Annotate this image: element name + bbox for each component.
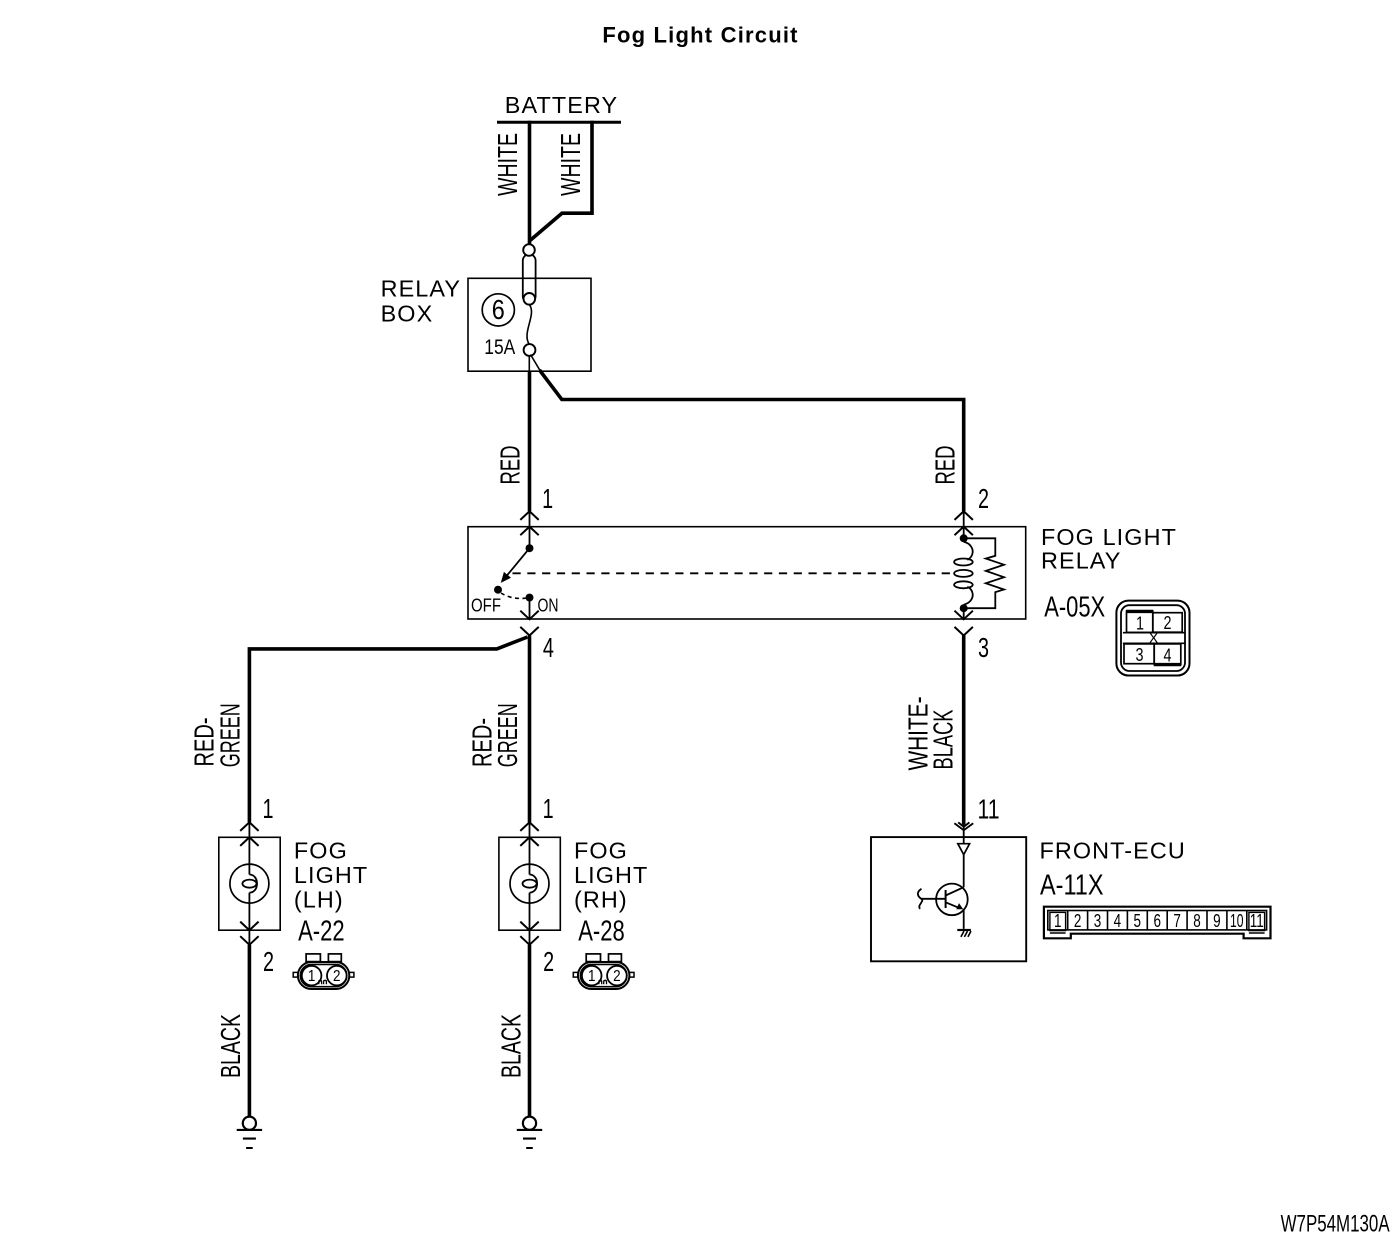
svg-text:LIGHT: LIGHT bbox=[574, 862, 648, 888]
svg-text:W7P54M130A: W7P54M130A bbox=[1281, 1211, 1390, 1238]
connector icon A-11X bbox=[1044, 907, 1271, 939]
fog light LH box bbox=[219, 837, 280, 930]
fog light LH bulb bbox=[248, 822, 250, 874]
svg-text:2: 2 bbox=[1164, 612, 1172, 633]
svg-text:8: 8 bbox=[1193, 911, 1201, 931]
relay box (fuse box) outline bbox=[468, 278, 591, 371]
relay coil L1 bbox=[964, 542, 973, 560]
svg-text:3: 3 bbox=[1094, 911, 1102, 931]
relay resistor (parallel) bbox=[964, 538, 1004, 608]
svg-text:2: 2 bbox=[613, 968, 621, 985]
svg-text:LIGHT: LIGHT bbox=[294, 862, 368, 888]
svg-text:A-11X: A-11X bbox=[1040, 869, 1104, 901]
connector icon A-05X bbox=[1116, 601, 1189, 676]
svg-text:(LH): (LH) bbox=[294, 886, 344, 912]
FRONT-ECU box bbox=[871, 837, 1026, 961]
relay coil bottom junction bbox=[960, 604, 968, 612]
pin 3 connector chevrons bbox=[955, 611, 973, 636]
fuse element squiggle bbox=[527, 305, 532, 345]
svg-text:11: 11 bbox=[978, 794, 1000, 825]
switch arm with arrow bbox=[505, 548, 530, 578]
fog light LH pin2 chevrons bbox=[240, 922, 258, 945]
wire pin3 to ECU pin 11 bbox=[962, 636, 966, 825]
fuse F6 terminal mid bbox=[524, 293, 536, 305]
svg-text:GREEN: GREEN bbox=[214, 703, 245, 767]
svg-text:10: 10 bbox=[1230, 911, 1244, 931]
switch OFF contact bbox=[494, 586, 502, 594]
svg-text:2: 2 bbox=[1074, 911, 1082, 931]
svg-text:FRONT-ECU: FRONT-ECU bbox=[1040, 837, 1186, 863]
svg-text:1: 1 bbox=[263, 793, 274, 824]
wire RED (fuse to relay pin 1) bbox=[528, 356, 530, 372]
fuse F6 terminal top bbox=[523, 244, 535, 256]
connector icon A-28 bbox=[573, 954, 634, 989]
pin 4 connector chevrons bbox=[520, 611, 538, 636]
wire RED branch (fuse to relay pin 2) bbox=[531, 355, 541, 372]
wire BLACK RH bbox=[528, 945, 532, 1117]
ECU internal input triangle bbox=[963, 824, 965, 844]
fuse F6 terminal bottom bbox=[524, 344, 536, 356]
chassis ground inside ECU bbox=[957, 929, 971, 931]
svg-text:1: 1 bbox=[1136, 613, 1144, 634]
svg-text:2: 2 bbox=[543, 946, 554, 977]
svg-text:4: 4 bbox=[1114, 911, 1122, 931]
relay coil top junction bbox=[960, 534, 968, 542]
wire BLACK LH bbox=[248, 945, 252, 1117]
pin 1 connector chevrons bbox=[520, 511, 538, 535]
svg-text:1: 1 bbox=[1054, 911, 1062, 931]
svg-text:5: 5 bbox=[1134, 911, 1142, 931]
svg-text:1: 1 bbox=[308, 968, 316, 985]
svg-text:A-28: A-28 bbox=[578, 915, 625, 947]
svg-text:BATTERY: BATTERY bbox=[505, 92, 618, 118]
wire pin4 branch to LH fog light bbox=[249, 637, 527, 822]
dashed actuation line bbox=[513, 572, 952, 574]
svg-text:BOX: BOX bbox=[381, 300, 434, 326]
svg-text:OFF: OFF bbox=[471, 595, 501, 615]
svg-text:WHITE: WHITE bbox=[492, 133, 523, 196]
connector icon A-22 bbox=[293, 954, 354, 989]
svg-text:BLACK: BLACK bbox=[927, 709, 958, 769]
switch travel dashed arc bbox=[501, 593, 526, 598]
svg-text:4: 4 bbox=[543, 632, 554, 663]
svg-text:3: 3 bbox=[978, 632, 989, 663]
wire WHITE left (battery to fuse) bbox=[528, 121, 532, 246]
svg-text:A-22: A-22 bbox=[298, 915, 345, 947]
svg-text:GREEN: GREEN bbox=[492, 703, 523, 767]
svg-text:15A: 15A bbox=[484, 335, 516, 359]
ground LH bbox=[237, 1117, 262, 1148]
fog light RH pin1 chevrons bbox=[520, 822, 538, 846]
switch common node bbox=[526, 544, 534, 552]
svg-text:1: 1 bbox=[588, 968, 596, 985]
svg-text:A-05X: A-05X bbox=[1044, 592, 1105, 624]
svg-text:2: 2 bbox=[978, 483, 989, 514]
svg-text:BLACK: BLACK bbox=[495, 1014, 526, 1078]
fuse number 6 (circled) bbox=[482, 294, 514, 326]
svg-text:Fog Light Circuit: Fog Light Circuit bbox=[602, 23, 798, 48]
pin 2 connector chevrons bbox=[955, 511, 973, 535]
wire WHITE right (battery, jog to fuse) bbox=[530, 121, 592, 241]
svg-text:BLACK: BLACK bbox=[215, 1014, 246, 1078]
fuse F6 body bbox=[523, 254, 536, 303]
svg-text:11: 11 bbox=[1250, 911, 1264, 931]
svg-text:6: 6 bbox=[1153, 911, 1161, 931]
svg-text:ON: ON bbox=[538, 595, 559, 615]
fog light RH bulb bbox=[529, 822, 531, 874]
wire battery bus bbox=[497, 121, 621, 124]
svg-text:6: 6 bbox=[492, 294, 505, 325]
ECU pin chevron bbox=[954, 822, 973, 830]
fog light relay box outline bbox=[468, 527, 1026, 619]
fog light LH pin1 chevrons bbox=[240, 822, 258, 846]
svg-text:FOG: FOG bbox=[574, 837, 628, 863]
svg-text:3: 3 bbox=[1136, 644, 1144, 665]
svg-text:RELAY: RELAY bbox=[1041, 548, 1121, 574]
svg-text:9: 9 bbox=[1213, 911, 1221, 931]
svg-text:FOG: FOG bbox=[294, 837, 348, 863]
svg-text:1: 1 bbox=[542, 483, 553, 514]
fog light RH box bbox=[499, 837, 560, 930]
fog light RH pin2 chevrons bbox=[520, 922, 538, 945]
transistor Q1 bbox=[918, 855, 968, 929]
wire pin4 to RH fog light bbox=[528, 636, 532, 823]
svg-text:4: 4 bbox=[1164, 645, 1172, 666]
switch ON contact bbox=[526, 594, 534, 602]
svg-text:RED: RED bbox=[495, 446, 526, 485]
svg-text:RELAY: RELAY bbox=[381, 276, 461, 302]
svg-text:FOG LIGHT: FOG LIGHT bbox=[1041, 524, 1177, 550]
ground RH bbox=[517, 1117, 542, 1148]
svg-text:RED: RED bbox=[929, 446, 960, 485]
svg-text:WHITE: WHITE bbox=[555, 133, 586, 196]
svg-text:2: 2 bbox=[263, 946, 274, 977]
svg-text:2: 2 bbox=[333, 968, 341, 985]
svg-text:7: 7 bbox=[1173, 911, 1181, 931]
svg-text:(RH): (RH) bbox=[574, 886, 628, 912]
svg-text:1: 1 bbox=[543, 793, 554, 824]
